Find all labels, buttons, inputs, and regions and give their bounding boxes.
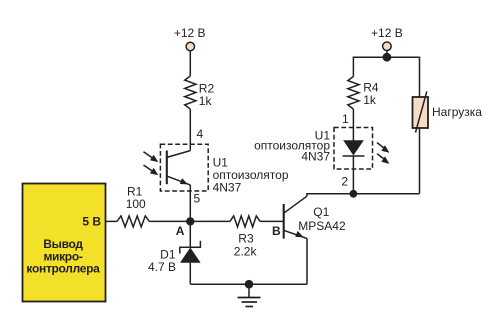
- wire Q1 emitter down to bottom rail: [306, 239, 308, 285]
- zener diode D1: [180, 241, 201, 263]
- resistor R1: [117, 216, 149, 227]
- wire R2 to optocoupler pin 4: [189, 109, 191, 151]
- wire pin 5 to node A: [189, 185, 191, 222]
- top right rail wire: [353, 57, 419, 97]
- wire R3 to base node B: [260, 220, 283, 222]
- svg-text:A: A: [176, 224, 185, 238]
- transistor U1 phototransistor: [167, 151, 191, 185]
- svg-text:5: 5: [194, 192, 201, 206]
- light emission arrows: [377, 143, 389, 164]
- wire R1 to node A: [149, 220, 190, 222]
- junction dot below LED: [350, 190, 358, 198]
- LED of optocoupler U1: [343, 140, 365, 156]
- wire Q1 collector to LED node: [307, 194, 354, 196]
- power terminal +12V right: [371, 26, 403, 51]
- wire terminal to top rail: [386, 51, 388, 58]
- wire node A down to D1: [189, 221, 191, 247]
- label Q1 MPSA42: [298, 205, 346, 233]
- svg-text:2: 2: [341, 174, 348, 188]
- svg-text:1k: 1k: [363, 93, 377, 107]
- svg-text:4N37: 4N37: [301, 150, 330, 164]
- resistor R2: [185, 76, 196, 109]
- load (Нагрузка): [413, 92, 429, 133]
- wire load bottom: [419, 128, 421, 194]
- optocoupler U1 LED dashed box: [334, 128, 373, 170]
- svg-text:+12 В: +12 В: [174, 26, 206, 40]
- optocoupler U1 phototransistor dashed box: [160, 144, 208, 191]
- wire R4 to LED pin 1: [352, 109, 354, 141]
- label U1 optoisolator 4N37 (left of LED box): [254, 129, 330, 164]
- svg-text:4N37: 4N37: [213, 180, 242, 194]
- svg-text:Q1: Q1: [313, 205, 329, 219]
- label U1 optoisolator 4N37 (right of box): [213, 155, 289, 194]
- label R2 1k: [199, 82, 215, 109]
- svg-text:100: 100: [126, 197, 146, 211]
- label D1 4.7V: [148, 248, 176, 275]
- svg-text:контроллера: контроллера: [26, 262, 100, 276]
- bottom wire rail: [190, 283, 307, 285]
- svg-text:R3: R3: [238, 232, 254, 246]
- svg-text:B: B: [272, 224, 281, 238]
- power terminal +12V left: [174, 26, 206, 51]
- label R3 2.2k: [234, 232, 258, 259]
- node A junction dot: [186, 217, 194, 225]
- svg-text:Нагрузка: Нагрузка: [432, 105, 482, 119]
- resistor R4: [348, 77, 359, 110]
- wire terminal to R2: [189, 51, 191, 76]
- wire microcontroller to R1: [106, 220, 118, 222]
- light arrows into phototransistor: [144, 152, 159, 176]
- wire node A to R3: [190, 220, 230, 222]
- ground junction dot: [245, 280, 254, 289]
- svg-text:1k: 1k: [199, 94, 213, 108]
- ground: [238, 284, 261, 306]
- transistor Q1: [284, 196, 307, 238]
- label R4 1k: [363, 81, 379, 108]
- svg-text:1: 1: [342, 112, 349, 126]
- svg-text:5 В: 5 В: [82, 215, 101, 229]
- label R1 100: [126, 184, 146, 211]
- wire junction to load bottom: [353, 193, 419, 195]
- wire D1 to bottom rail: [189, 263, 191, 285]
- wire LED cathode to junction: [352, 156, 354, 194]
- junction dot below +12V right: [383, 53, 392, 62]
- svg-text:+12 В: +12 В: [371, 26, 403, 40]
- svg-text:MPSA42: MPSA42: [298, 219, 346, 233]
- svg-text:4: 4: [197, 127, 204, 141]
- svg-text:2.2k: 2.2k: [234, 245, 258, 259]
- svg-text:4.7 В: 4.7 В: [148, 260, 176, 274]
- microcontroller output box: [23, 184, 106, 302]
- resistor R3: [230, 216, 260, 227]
